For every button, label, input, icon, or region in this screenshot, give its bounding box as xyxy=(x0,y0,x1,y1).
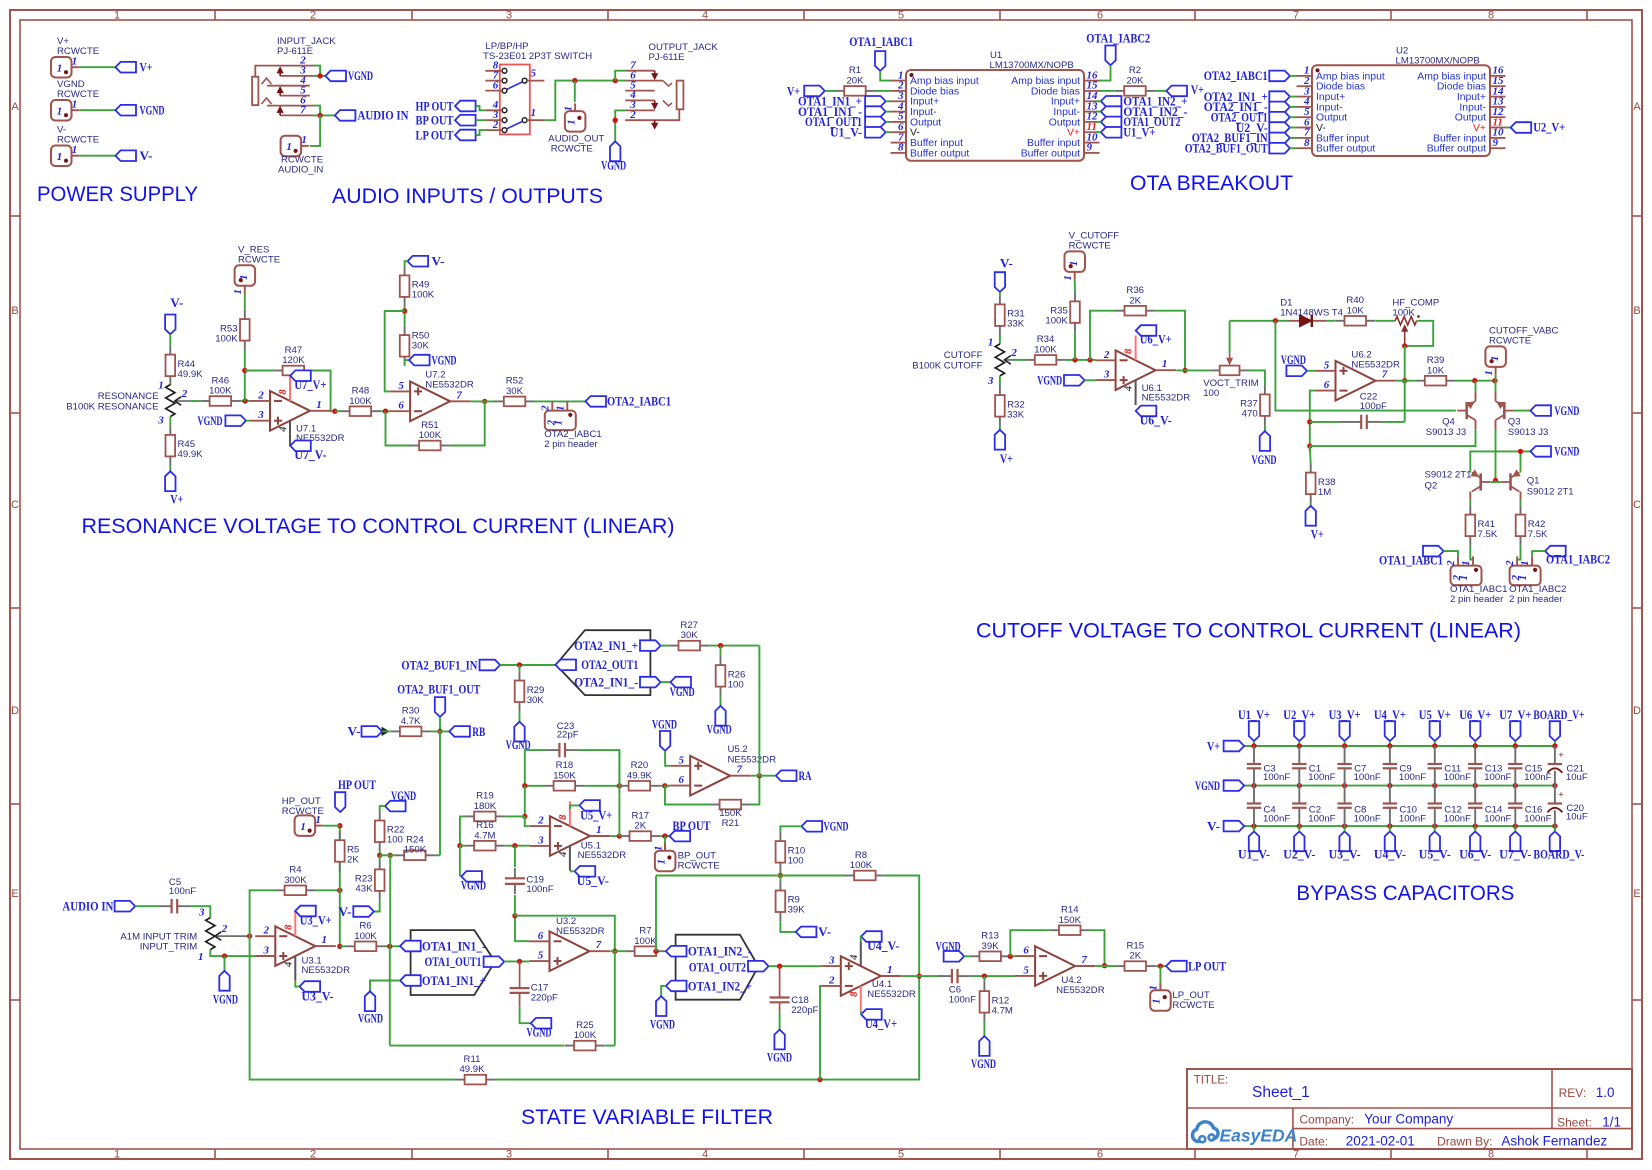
wire R11 right xyxy=(495,976,919,1080)
polarized capacitor C21 xyxy=(1547,746,1588,786)
svg-text:30K: 30K xyxy=(412,340,430,351)
wire U5_V+ to rail xyxy=(1434,741,1436,746)
svg-text:U1_V+: U1_V+ xyxy=(1123,126,1155,140)
svg-text:E: E xyxy=(1633,888,1640,900)
svg-text:Drawn By:: Drawn By: xyxy=(1437,1134,1492,1148)
junction xyxy=(512,843,517,848)
potentiometer INPUT_TRIM xyxy=(206,918,250,950)
wire flag to header pin1 xyxy=(1532,551,1545,556)
capacitor C15 xyxy=(1508,746,1552,786)
svg-text:S9012 2T1: S9012 2T1 xyxy=(1425,469,1472,480)
svg-text:OTA2_BUF1_IN: OTA2_BUF1_IN xyxy=(401,658,477,672)
svg-text:BYPASS CAPACITORS: BYPASS CAPACITORS xyxy=(1296,882,1514,905)
svg-text:43K: 43K xyxy=(355,884,373,895)
svg-text:U5_V-: U5_V- xyxy=(1419,848,1451,862)
net flag LP OUT xyxy=(455,130,476,141)
net flag VGND xyxy=(1064,375,1085,386)
net flag LP OUT xyxy=(1166,961,1187,972)
svg-text:OTA1_IABC1: OTA1_IABC1 xyxy=(1379,553,1443,567)
wire VGND to R13 xyxy=(964,955,970,957)
wire pin6 chain to R38 xyxy=(1309,446,1312,463)
wire R8 xyxy=(780,875,845,877)
wire OUT1 to U3.2 pin5 xyxy=(504,960,529,962)
svg-text:RCWCTE: RCWCTE xyxy=(678,861,720,872)
net flag VGND (R26) xyxy=(715,706,725,726)
wire U2_V- to rail xyxy=(1298,826,1300,831)
svg-text:2 pin header: 2 pin header xyxy=(1509,594,1563,605)
svg-text:C: C xyxy=(11,499,19,511)
wire U6.2 pin6 down xyxy=(1310,391,1316,452)
net flag U3_V- xyxy=(1339,831,1349,851)
op-amp U3.2 xyxy=(530,916,611,971)
resistor R4 xyxy=(275,865,315,896)
svg-text:U6_V-: U6_V- xyxy=(1459,848,1491,862)
svg-text:OTA1_IN1_-: OTA1_IN1_- xyxy=(422,940,486,954)
2-pin header OTA2_IABC1 header xyxy=(539,401,601,450)
svg-text:B: B xyxy=(11,305,18,317)
capacitor C5 xyxy=(158,877,196,914)
svg-text:VGND: VGND xyxy=(391,789,416,803)
wire IN1_+ to VGND xyxy=(370,981,400,992)
resistor R1 xyxy=(835,65,875,96)
svg-text:30K: 30K xyxy=(527,695,545,706)
net flag OTA1_IN1_- xyxy=(865,106,886,117)
wire 4 elbow xyxy=(570,870,575,872)
net flag BOARD_V- xyxy=(1550,831,1560,851)
junction U5.2 out xyxy=(757,773,762,778)
wire VGND xyxy=(79,109,115,111)
svg-text:1: 1 xyxy=(1062,275,1074,281)
svg-text:150K: 150K xyxy=(404,844,427,855)
switch LP/BP/HP TS-23E01 2P3T xyxy=(483,41,592,134)
resistor R26 xyxy=(716,656,746,696)
net flag VGND (C17) xyxy=(531,1018,552,1029)
connector OUTPUT_JACK PJ-611E xyxy=(625,42,718,129)
svg-text:LP OUT: LP OUT xyxy=(1188,959,1226,973)
resistor R11 xyxy=(455,1054,495,1085)
wire R46 to U7.1 pin2 xyxy=(240,400,250,402)
resistor R19 xyxy=(465,791,505,821)
wire OTA1_IN1_+ to U1 xyxy=(886,100,891,102)
svg-text:3: 3 xyxy=(198,907,205,919)
op-amp U7.1 xyxy=(250,376,345,446)
svg-text:NE5532DR: NE5532DR xyxy=(578,850,627,861)
svg-text:VGND: VGND xyxy=(971,1057,996,1071)
svg-text:1: 1 xyxy=(158,380,164,392)
resistor R37 xyxy=(1240,385,1270,425)
net flag V+ (R1) xyxy=(804,86,825,97)
svg-text:V-: V- xyxy=(818,925,831,939)
svg-text:49.9K: 49.9K xyxy=(459,1064,485,1075)
resistor R45 xyxy=(166,426,204,466)
wire C23 line xyxy=(525,750,546,786)
svg-text:4: 4 xyxy=(849,955,860,961)
svg-text:V+: V+ xyxy=(1191,83,1204,97)
wire U4_V- to rail xyxy=(1389,826,1391,831)
svg-text:5: 5 xyxy=(398,380,404,392)
resistor R31 xyxy=(995,295,1025,335)
net flag V+ (R2) xyxy=(1166,86,1187,97)
svg-text:1: 1 xyxy=(114,10,120,22)
svg-text:RCWCTE: RCWCTE xyxy=(57,135,99,146)
wire R49 to R50 xyxy=(404,306,406,326)
svg-text:REV:: REV: xyxy=(1559,1086,1587,1100)
svg-text:U7_V-: U7_V- xyxy=(1499,848,1531,862)
wire R16 xyxy=(460,845,465,847)
wire D1 node to Q4 base xyxy=(1275,321,1456,411)
wire R49-R50 node to U7.2 pin5 xyxy=(385,311,405,391)
capacitor C9 xyxy=(1383,746,1427,786)
wire V+ rail xyxy=(1244,745,1555,747)
resistor R34 xyxy=(1026,334,1066,365)
wire R27 right xyxy=(709,645,759,647)
svg-text:+: + xyxy=(1558,790,1563,800)
svg-text:OTA1_OUT1: OTA1_OUT1 xyxy=(425,955,482,969)
wire Q4 collector down-left xyxy=(1475,420,1477,429)
svg-text:OTA2_IABC1: OTA2_IABC1 xyxy=(607,395,671,409)
section AUDIO INPUTS / OUTPUTS xyxy=(252,36,718,208)
wire R50 to VGND xyxy=(405,360,409,366)
wire R9 to V- xyxy=(780,921,795,932)
svg-text:1: 1 xyxy=(301,134,307,146)
svg-text:LP OUT: LP OUT xyxy=(416,128,454,142)
SVF right: U4 integrators and LP out xyxy=(521,820,1226,1129)
capacitor C17 xyxy=(510,982,558,1006)
junction xyxy=(617,833,622,838)
wire R15 right xyxy=(1155,965,1166,967)
net flag U7_V+ xyxy=(1510,721,1520,741)
svg-text:V+: V+ xyxy=(170,493,183,507)
svg-text:VGND: VGND xyxy=(461,879,486,893)
svg-text:VGND: VGND xyxy=(650,1017,675,1031)
svg-text:BOARD_V+: BOARD_V+ xyxy=(1533,708,1584,722)
wire R39 to Q bases xyxy=(1456,380,1495,382)
svg-text:1: 1 xyxy=(1517,575,1529,581)
svg-text:5: 5 xyxy=(1023,964,1029,976)
wire R17 right xyxy=(660,835,669,837)
svg-text:8: 8 xyxy=(283,924,294,930)
svg-text:Ashok Fernandez: Ashok Fernandez xyxy=(1501,1133,1607,1148)
wire U1_V- to U1 xyxy=(886,131,891,133)
net flag OTA2_BUF1_OUT xyxy=(1269,143,1290,154)
capacitor C18 xyxy=(770,995,819,1016)
wire Q2 collector to R41 xyxy=(1469,492,1471,501)
svg-text:U4_V+: U4_V+ xyxy=(865,1017,897,1031)
net flag VGND (Q1 Q2) xyxy=(1530,446,1551,457)
resistor R35 xyxy=(1045,292,1079,332)
svg-text:8: 8 xyxy=(849,991,860,997)
svg-text:Buffer output: Buffer output xyxy=(910,148,969,159)
resistor R14 xyxy=(1050,905,1090,936)
wire R53 to R47 node xyxy=(244,350,246,401)
wire output jack pin3-pin2 to VGND xyxy=(615,110,625,141)
svg-text:3: 3 xyxy=(987,375,994,387)
svg-text:PJ-611E: PJ-611E xyxy=(277,46,313,57)
svg-text:7: 7 xyxy=(1081,954,1087,966)
wire R52 to OTA2_IABC1 xyxy=(534,400,585,402)
svg-text:8: 8 xyxy=(278,389,289,395)
title block xyxy=(1187,1069,1632,1149)
net flag OTA1_OUT1 xyxy=(484,956,505,967)
svg-text:1: 1 xyxy=(1148,985,1160,991)
junction xyxy=(1158,963,1163,968)
net flag VGND xyxy=(601,141,626,172)
capacitor C13 xyxy=(1468,746,1512,786)
transistor Q4 S9013 xyxy=(1457,401,1475,420)
wire C5 to INPUT_TRIM pin3 xyxy=(190,906,210,917)
net flag BP OUT xyxy=(455,115,476,126)
net flag U1_V- xyxy=(1249,831,1259,851)
svg-text:OTA1_OUT2: OTA1_OUT2 xyxy=(689,961,746,975)
net flag V+ xyxy=(165,471,175,491)
svg-text:8: 8 xyxy=(558,814,569,820)
svg-text:2: 2 xyxy=(181,388,188,400)
junction xyxy=(522,783,527,788)
svg-text:U4_V-: U4_V- xyxy=(1374,848,1406,862)
resistor R42 xyxy=(1516,505,1548,545)
wire R19 xyxy=(505,815,525,817)
port AUDIO_OUT xyxy=(562,103,585,131)
svg-text:100nF: 100nF xyxy=(1399,772,1426,783)
wire OTA1_IN2_- to U1 xyxy=(1095,111,1100,113)
wire V- xyxy=(79,155,115,157)
svg-text:20K: 20K xyxy=(846,76,864,87)
wire to VGND xyxy=(224,956,226,971)
svg-text:1: 1 xyxy=(57,151,63,163)
resistor R36 xyxy=(1115,285,1155,316)
wire out to RA xyxy=(751,775,776,777)
wire R36 left xyxy=(1090,311,1116,360)
svg-text:39K: 39K xyxy=(982,941,1000,952)
net flag OTA1_IABC1 xyxy=(875,51,885,71)
svg-text:22pF: 22pF xyxy=(557,730,579,741)
svg-text:Q3: Q3 xyxy=(1508,416,1521,427)
section POWER SUPPLY xyxy=(37,36,198,206)
svg-text:POWER SUPPLY: POWER SUPPLY xyxy=(37,183,198,206)
wire R13 to pin6 xyxy=(1010,955,1015,957)
wire R2 to V+ xyxy=(1155,90,1166,92)
svg-text:VGND: VGND xyxy=(601,159,626,173)
svg-text:1: 1 xyxy=(72,99,78,111)
wire OTA1_OUT1 to U1 xyxy=(886,121,891,123)
wire R48 to U7.2 pin6 xyxy=(380,410,390,412)
svg-text:2: 2 xyxy=(1010,347,1017,359)
net flag OTA1_OUT2 xyxy=(748,961,769,972)
wire U7_V- to rail xyxy=(1514,826,1516,831)
svg-text:3: 3 xyxy=(506,10,512,22)
svg-text:1M: 1M xyxy=(1318,487,1331,498)
resistor R22 xyxy=(375,811,405,851)
net flag OTA1_IABC2 xyxy=(1545,546,1566,557)
junction xyxy=(777,964,782,969)
net flag BOARD_V+ xyxy=(1550,721,1560,741)
svg-text:2: 2 xyxy=(310,10,316,22)
svg-text:U7_V-: U7_V- xyxy=(294,448,326,462)
wire VGND to R10 xyxy=(780,826,801,832)
svg-text:C: C xyxy=(1633,499,1641,511)
svg-text:7: 7 xyxy=(736,764,742,776)
svg-text:VGND: VGND xyxy=(1554,404,1579,418)
svg-text:5: 5 xyxy=(1324,359,1330,371)
net flag BP OUT xyxy=(670,831,691,842)
capacitor C6 xyxy=(939,969,971,983)
svg-text:U2_V-: U2_V- xyxy=(1283,848,1315,862)
svg-text:+: + xyxy=(1558,750,1563,760)
svg-text:3: 3 xyxy=(257,409,264,421)
svg-text:8: 8 xyxy=(1488,1149,1494,1161)
section RESONANCE continued xyxy=(82,245,675,539)
svg-text:Diode bias: Diode bias xyxy=(1031,86,1080,97)
wire R41 to header xyxy=(1470,545,1473,559)
wire V- to R31 xyxy=(999,292,1001,295)
svg-text:1: 1 xyxy=(232,289,244,295)
svg-text:9: 9 xyxy=(1087,142,1093,154)
svg-text:2: 2 xyxy=(539,405,551,412)
svg-text:Buffer output: Buffer output xyxy=(1427,144,1486,155)
svg-text:1: 1 xyxy=(1458,575,1470,581)
wire Q4 emitter up xyxy=(1475,392,1477,402)
wire OUT2 node to C18 xyxy=(779,966,781,997)
net flag OTA2_IABC1 xyxy=(1269,71,1290,82)
svg-text:NE5532DR: NE5532DR xyxy=(728,755,777,766)
wire R45 to V+ xyxy=(169,466,171,472)
junction xyxy=(718,643,723,648)
wire U5.1 out xyxy=(611,835,621,837)
svg-text:33K: 33K xyxy=(1007,409,1025,420)
svg-text:VGND: VGND xyxy=(1252,453,1277,467)
wire BOARD_V+ to rail xyxy=(1554,741,1556,746)
wire IN2_+ to VGND xyxy=(661,986,666,996)
wire LP_OUT port xyxy=(1159,966,1161,990)
svg-text:8: 8 xyxy=(1124,348,1135,354)
wire OTA2_BUF1_IN to U2 xyxy=(1290,137,1297,139)
svg-text:6: 6 xyxy=(1023,945,1029,957)
connector INPUT_JACK PJ-611E xyxy=(252,36,336,116)
svg-text:150K: 150K xyxy=(553,770,576,781)
resistor R32 xyxy=(995,386,1025,426)
wire C6 right xyxy=(971,975,1016,977)
junction xyxy=(1552,743,1557,748)
svg-text:100nF: 100nF xyxy=(1399,813,1426,824)
wire R23 down xyxy=(379,855,381,860)
wire U6.1 out to VOCT_TRIM xyxy=(1176,369,1210,371)
svg-text:TS-23E01 2P3T SWITCH: TS-23E01 2P3T SWITCH xyxy=(483,51,592,62)
capacitor C14 xyxy=(1468,786,1512,827)
svg-text:LM13700MX/NOPB: LM13700MX/NOPB xyxy=(990,60,1074,71)
svg-text:7.5K: 7.5K xyxy=(1528,529,1548,540)
svg-text:100K: 100K xyxy=(850,860,873,871)
wire D1 line xyxy=(1230,320,1289,322)
junction xyxy=(242,368,247,373)
junction xyxy=(517,959,522,964)
junction xyxy=(517,662,522,667)
net flag OTA2_BUF1_IN xyxy=(480,660,501,671)
junction xyxy=(1387,743,1392,748)
resistor R2 xyxy=(1115,65,1155,96)
svg-text:V+: V+ xyxy=(1311,528,1324,542)
junction xyxy=(337,888,342,893)
net flag OTA2_IN1_+ xyxy=(640,640,661,651)
capacitor C23 xyxy=(546,721,579,758)
net flag U6_V+ xyxy=(1470,721,1480,741)
junction U4.1 out xyxy=(917,973,922,978)
wire port to node xyxy=(1495,375,1497,381)
svg-text:100nF: 100nF xyxy=(1308,813,1335,824)
svg-text:A1M INPUT TRIM: A1M INPUT TRIM xyxy=(120,931,197,942)
wire R14 loop xyxy=(1010,930,1050,956)
net flag U2_V+ xyxy=(1511,122,1532,133)
wire OTA2_IN1_+ to U2 xyxy=(1290,96,1297,98)
net flag OTA2_BUF1_IN xyxy=(1269,133,1290,144)
svg-text:100nF: 100nF xyxy=(169,886,196,897)
wire U1_V+ to U1 xyxy=(1095,131,1100,133)
svg-text:10uF: 10uF xyxy=(1566,772,1588,783)
svg-text:2: 2 xyxy=(492,119,499,131)
svg-text:2: 2 xyxy=(828,974,835,986)
net flag V- xyxy=(995,272,1005,292)
svg-text:3: 3 xyxy=(1103,369,1110,381)
svg-text:Buffer output: Buffer output xyxy=(1316,144,1375,155)
net flag U3_V+ xyxy=(295,906,316,917)
wire OUT2 to pin3 xyxy=(769,965,821,967)
svg-text:7: 7 xyxy=(300,104,306,116)
trimmer HF_COMP 100K xyxy=(1392,298,1439,346)
wire R42 to header xyxy=(1517,545,1520,559)
wire V+ xyxy=(79,66,115,68)
svg-text:6: 6 xyxy=(678,774,684,786)
wire IN1+ to R27 xyxy=(661,645,670,647)
svg-text:100nF: 100nF xyxy=(1354,772,1381,783)
svg-text:100nF: 100nF xyxy=(1484,813,1511,824)
net flag OTA2_IN1_+ xyxy=(1269,91,1290,102)
svg-text:2021-02-01: 2021-02-01 xyxy=(1346,1133,1415,1148)
resistor R47 xyxy=(273,345,313,376)
net flag OTA1_OUT2 xyxy=(1101,117,1122,128)
wire R12 down xyxy=(983,976,985,982)
wire HP OUT to switch pin4 xyxy=(476,106,486,110)
wire R8 right xyxy=(885,876,920,977)
wire R40 to HF_COMP xyxy=(1376,320,1396,322)
polarized capacitor C20 xyxy=(1547,786,1588,827)
svg-text:BOARD_V-: BOARD_V- xyxy=(1533,848,1584,862)
svg-text:1: 1 xyxy=(596,824,602,836)
svg-text:1: 1 xyxy=(1162,358,1168,370)
svg-text:D: D xyxy=(1633,705,1641,717)
svg-text:RCWCTE: RCWCTE xyxy=(1172,1000,1214,1011)
2-pin header OTA1_IABC2 header xyxy=(1504,556,1566,605)
resistor R7 xyxy=(625,926,665,957)
svg-text:Diode bias: Diode bias xyxy=(910,86,959,97)
svg-text:1: 1 xyxy=(286,141,292,153)
svg-text:VGND: VGND xyxy=(1281,353,1306,367)
svg-text:1: 1 xyxy=(322,934,328,946)
wire VGND below R19R16 xyxy=(459,846,461,877)
svg-text:300K: 300K xyxy=(284,875,307,886)
svg-text:B100K RESONANCE: B100K RESONANCE xyxy=(66,401,158,412)
svg-text:NE5532DR: NE5532DR xyxy=(867,989,916,1000)
wire up to R8 line xyxy=(655,876,657,952)
svg-text:4: 4 xyxy=(1124,386,1135,392)
svg-text:OTA1_IABC2: OTA1_IABC2 xyxy=(1086,32,1150,46)
svg-text:OTA1_IN2_+: OTA1_IN2_+ xyxy=(688,979,752,993)
wire R12 to VGND xyxy=(983,1022,985,1036)
svg-text:100nF: 100nF xyxy=(1308,772,1335,783)
svg-text:6: 6 xyxy=(398,400,404,412)
svg-text:100K: 100K xyxy=(412,290,435,301)
svg-text:2: 2 xyxy=(1103,349,1110,361)
junction xyxy=(337,823,342,828)
wire OTA2_OUT1 to U2 xyxy=(1290,116,1297,118)
